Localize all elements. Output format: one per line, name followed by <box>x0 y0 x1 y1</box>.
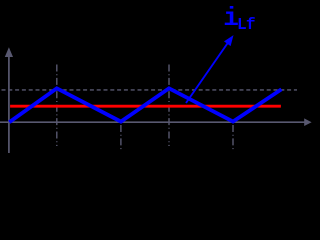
dash-dot vertical at second peak <box>168 65 170 147</box>
horizontal axis <box>0 121 305 123</box>
blue annotation arrowhead <box>224 35 234 46</box>
vertical axis <box>8 55 10 153</box>
vertical axis arrowhead <box>5 47 13 57</box>
red average-current line <box>10 105 281 108</box>
dash-dot vertical at second trough <box>232 125 234 151</box>
blue triangular inductor-current waveform <box>9 88 281 122</box>
dash-dot vertical at first trough <box>120 125 122 151</box>
dash-dot vertical at first peak <box>56 65 58 147</box>
blue annotation arrow shaft <box>186 39 231 103</box>
svg-text:f: f <box>246 16 256 34</box>
dashed peak-level reference line <box>2 89 298 91</box>
horizontal axis arrowhead <box>304 118 311 126</box>
